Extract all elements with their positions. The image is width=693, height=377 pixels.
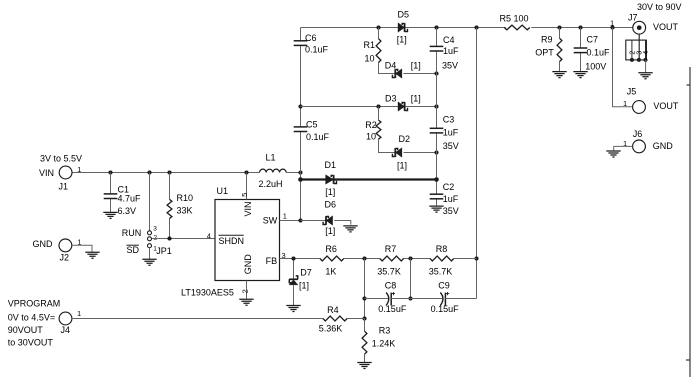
svg-text:R8: R8 xyxy=(436,244,448,254)
svg-text:1uF: 1uF xyxy=(443,194,459,204)
svg-text:R5 100: R5 100 xyxy=(500,13,529,23)
svg-text:90VOUT: 90VOUT xyxy=(8,325,44,335)
svg-text:1uF: 1uF xyxy=(443,46,459,56)
ground below C7 xyxy=(573,72,587,78)
svg-text:C7: C7 xyxy=(587,34,599,44)
svg-text:[1]: [1] xyxy=(325,226,335,236)
svg-text:D6: D6 xyxy=(325,199,337,209)
J7 shell box with pins 2 3 4 xyxy=(638,34,640,60)
svg-text:0V to 4.5V=: 0V to 4.5V= xyxy=(8,312,55,322)
svg-text:35.7K: 35.7K xyxy=(377,266,401,276)
svg-text:C2: C2 xyxy=(443,182,455,192)
svg-text:5.36K: 5.36K xyxy=(319,324,343,334)
capacitor C1 4.7uF 6.3V xyxy=(110,173,112,213)
svg-text:VOUT: VOUT xyxy=(653,22,679,32)
svg-text:LT1930AES5: LT1930AES5 xyxy=(181,288,234,298)
svg-text:D2: D2 xyxy=(399,134,411,144)
svg-text:30V to 90V: 30V to 90V xyxy=(637,2,682,12)
schematic frame border right xyxy=(689,67,691,377)
capacitor C9 0.15uF polarized xyxy=(411,298,444,300)
svg-text:1: 1 xyxy=(623,99,627,108)
wire: SW node column (C5 bottom to SW row) xyxy=(300,132,302,221)
wire: top rail1 with D5 and R5 xyxy=(301,27,633,29)
ground below C2 xyxy=(429,206,443,212)
pin 3 FB of U1 xyxy=(280,258,320,260)
capacitor C8 0.15uF polarized xyxy=(365,298,389,300)
resistor R9 OPT xyxy=(559,28,561,72)
svg-text:GND: GND xyxy=(243,254,253,275)
svg-text:SD: SD xyxy=(127,245,140,255)
resistor R7 35.7K xyxy=(380,256,404,261)
svg-text:D4: D4 xyxy=(385,61,397,71)
inductor L1 2.2uH xyxy=(260,169,287,172)
capacitor C7 0.1uF 100V xyxy=(580,28,582,72)
svg-text:1.24K: 1.24K xyxy=(372,339,396,349)
wire: J7 shell to ground xyxy=(645,60,647,73)
svg-text:3: 3 xyxy=(282,251,286,260)
svg-text:0.1uF: 0.1uF xyxy=(306,132,330,142)
wire: SHDN row from JP1 pin2 to U1 xyxy=(152,238,215,240)
svg-text:L1: L1 xyxy=(266,153,276,163)
svg-text:35V: 35V xyxy=(443,141,459,151)
svg-text:J4: J4 xyxy=(61,325,71,335)
svg-text:0.15uF: 0.15uF xyxy=(378,304,407,314)
svg-text:0.1uF: 0.1uF xyxy=(305,45,329,55)
svg-text:4: 4 xyxy=(207,231,211,240)
ground below C1 xyxy=(103,212,117,218)
connector J5 VOUT xyxy=(633,101,646,114)
svg-text:[1]: [1] xyxy=(411,61,421,71)
wire: rail2 from C6 bottom with D3 xyxy=(301,106,437,108)
capacitor C6 0.1uF xyxy=(300,28,302,41)
svg-text:1uF: 1uF xyxy=(443,128,459,138)
svg-text:35.7K: 35.7K xyxy=(429,266,453,276)
svg-text:1: 1 xyxy=(283,211,287,220)
svg-text:0.1uF: 0.1uF xyxy=(587,48,611,58)
node: D1 cathode at C2 top xyxy=(434,177,439,182)
resistor R10 33K xyxy=(169,173,171,239)
svg-text:J6: J6 xyxy=(633,129,643,139)
ground at J2 xyxy=(85,252,99,258)
svg-text:1K: 1K xyxy=(325,266,336,276)
connector J2 GND xyxy=(59,239,72,252)
capacitor C5 0.1uF xyxy=(300,45,302,127)
node: R6-R7 junction xyxy=(362,256,366,260)
node: R10 to SHDN junction xyxy=(167,236,171,240)
svg-text:OPT: OPT xyxy=(535,48,554,58)
resistor R4 5.36K xyxy=(323,316,347,321)
resistor R2 10 xyxy=(379,107,396,153)
pin 1 SW of U1 xyxy=(280,220,301,222)
svg-text:R4: R4 xyxy=(327,305,339,315)
svg-text:R2: R2 xyxy=(365,120,377,130)
svg-text:[1]: [1] xyxy=(411,93,421,103)
svg-text:J5: J5 xyxy=(627,87,637,97)
svg-text:C8: C8 xyxy=(385,280,397,290)
svg-text:1: 1 xyxy=(77,309,81,318)
wire: J6 to ground xyxy=(614,146,633,150)
svg-text:SW: SW xyxy=(263,216,278,226)
svg-text:4: 4 xyxy=(643,51,650,55)
svg-text:D3: D3 xyxy=(385,93,397,103)
resistor R8 35.7K xyxy=(430,256,454,261)
resistor R6 1K xyxy=(320,256,344,261)
svg-text:to 30VOUT: to 30VOUT xyxy=(8,338,54,348)
svg-text:SHDN: SHDN xyxy=(219,236,245,246)
svg-text:1: 1 xyxy=(610,18,614,27)
svg-text:R3: R3 xyxy=(379,325,391,335)
svg-text:RUN: RUN xyxy=(122,228,142,238)
capacitor C2 1uF 35V xyxy=(436,180,438,206)
svg-text:0.15uF: 0.15uF xyxy=(431,304,460,314)
ground below R3 xyxy=(357,363,371,369)
svg-text:10: 10 xyxy=(365,54,375,64)
svg-text:FB: FB xyxy=(266,256,278,266)
wire: output column from rail1 to FB row and C9 xyxy=(476,28,478,299)
svg-text:5: 5 xyxy=(240,193,249,197)
svg-text:4.7uF: 4.7uF xyxy=(118,194,142,204)
svg-text:C6: C6 xyxy=(305,33,317,43)
node: D4 anode at C4 bottom xyxy=(434,71,438,75)
resistor R5 100 xyxy=(504,25,530,30)
diode D7 schottky on FB to ground xyxy=(293,259,295,306)
node: D2 anode at C3 bottom xyxy=(434,150,438,154)
svg-text:R6: R6 xyxy=(325,244,337,254)
svg-text:1: 1 xyxy=(77,165,81,174)
svg-text:2: 2 xyxy=(241,289,250,293)
svg-text:VIN: VIN xyxy=(243,201,253,216)
resistor R3 1.24K xyxy=(364,319,366,363)
wire: J2 to ground xyxy=(72,245,92,252)
diode D3 schottky xyxy=(398,102,405,111)
wire: J4 to R4 xyxy=(72,318,323,320)
svg-text:R1: R1 xyxy=(364,40,376,50)
connector J4 VPROGRAM xyxy=(59,312,72,325)
node: VIN rail junction dots xyxy=(108,170,112,174)
svg-text:JP1: JP1 xyxy=(156,246,172,256)
node: R7-R8 junction xyxy=(408,256,412,260)
capacitor C4 1uF 35V xyxy=(436,28,438,107)
wire: L1 to SW node column xyxy=(286,172,300,174)
svg-text:R7: R7 xyxy=(385,244,397,254)
svg-text:R10: R10 xyxy=(177,193,194,203)
wire: bold D1 row from SW node to C2 top xyxy=(301,178,437,180)
svg-text:C9: C9 xyxy=(438,280,450,290)
svg-text:U1: U1 xyxy=(217,186,229,196)
resistor R1 10 xyxy=(379,28,396,74)
svg-text:C3: C3 xyxy=(443,114,455,124)
ground below JP1 xyxy=(142,259,156,265)
ground below R9 xyxy=(552,72,566,78)
svg-text:D5: D5 xyxy=(398,10,410,20)
ground at D6 xyxy=(343,226,357,232)
diode D4 schottky xyxy=(395,69,402,78)
wire: node1 column down to R4 row xyxy=(364,259,366,319)
wire: J5 column from rail1 xyxy=(613,28,633,107)
svg-text:C5: C5 xyxy=(306,119,318,129)
capacitor C3 1uF 35V xyxy=(436,107,438,180)
svg-text:J7: J7 xyxy=(628,12,638,22)
svg-text:R9: R9 xyxy=(541,34,553,44)
ground at J6 xyxy=(606,151,620,157)
svg-text:35V: 35V xyxy=(442,61,458,71)
svg-text:[1]: [1] xyxy=(397,160,407,170)
svg-text:3: 3 xyxy=(153,226,157,233)
diode D6 schottky to ground xyxy=(301,220,327,222)
svg-text:D1: D1 xyxy=(325,160,337,170)
jumper JP1 with RUN / SD pins xyxy=(149,173,151,231)
svg-text:2.2uH: 2.2uH xyxy=(259,179,283,189)
svg-text:33K: 33K xyxy=(177,206,193,216)
ground below J7 shell xyxy=(638,73,652,79)
svg-text:35V: 35V xyxy=(443,206,459,216)
svg-text:VIN: VIN xyxy=(39,168,54,178)
svg-text:[1]: [1] xyxy=(325,187,335,197)
svg-text:VPROGRAM: VPROGRAM xyxy=(8,299,61,309)
connector J7 VOUT with multi-pin shell xyxy=(633,21,646,34)
connector J6 GND xyxy=(633,140,646,153)
connector J1 VIN xyxy=(59,166,72,179)
pin 5 VIN of U1 xyxy=(246,173,248,200)
IC U1 LT1930AES5 switching regulator xyxy=(215,200,280,281)
svg-text:J2: J2 xyxy=(60,253,70,263)
node: C6 bottom on rail2 xyxy=(298,104,302,108)
svg-text:GND: GND xyxy=(653,141,674,151)
svg-text:D7: D7 xyxy=(300,268,312,278)
ground below U1 pin 2 xyxy=(239,299,253,305)
svg-text:100V: 100V xyxy=(585,61,606,71)
diode D2 schottky xyxy=(395,148,402,157)
wire: VIN rail from J1 to L1 xyxy=(72,172,260,174)
svg-text:[1]: [1] xyxy=(299,280,309,290)
svg-text:GND: GND xyxy=(33,239,54,249)
diode D1 schottky xyxy=(326,175,334,184)
svg-text:C4: C4 xyxy=(443,35,455,45)
svg-text:J1: J1 xyxy=(59,181,69,191)
pin 2 GND of U1 xyxy=(246,281,248,299)
svg-text:10: 10 xyxy=(366,131,376,141)
node: rail1 junctions xyxy=(376,25,380,29)
svg-text:[1]: [1] xyxy=(397,35,407,45)
svg-text:3V to 5.5V: 3V to 5.5V xyxy=(40,154,82,164)
wire: node2 column down to C8/C9 row xyxy=(410,259,412,299)
svg-text:6.3V: 6.3V xyxy=(118,206,137,216)
ground below D7 xyxy=(286,306,300,312)
diode D5 schottky xyxy=(398,23,405,32)
svg-text:VOUT: VOUT xyxy=(653,101,679,111)
